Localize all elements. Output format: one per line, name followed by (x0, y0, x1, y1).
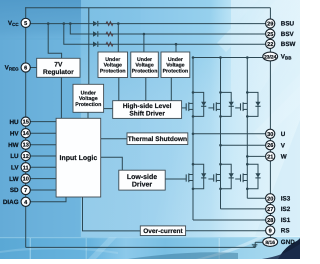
wire UVP2 to high-side driver (145, 78, 147, 101)
svg-text:VREG: VREG (5, 65, 19, 72)
node Q6 low-side W source junction (246, 188, 249, 191)
svg-text:27: 27 (267, 207, 273, 213)
svg-text:21: 21 (267, 154, 273, 160)
wire gate stub low V (208, 178, 213, 180)
svg-text:14: 14 (23, 131, 30, 137)
wire VREG pin to regulator (30, 67, 36, 69)
svg-text:Protection: Protection (163, 68, 189, 74)
svg-text:7V: 7V (54, 62, 63, 69)
pin 14 HV (10, 129, 30, 138)
svg-text:U: U (281, 131, 286, 138)
svg-text:HV: HV (10, 130, 20, 137)
transistor Q5 low-side V (214, 173, 221, 182)
svg-text:Protection: Protection (100, 68, 126, 74)
bootstrap resistor R2 (106, 32, 113, 36)
svg-text:W: W (281, 154, 287, 161)
wire input logic to thermal shutdown (101, 138, 127, 140)
pin 6 VREG (5, 63, 31, 72)
svg-text:30: 30 (267, 132, 273, 138)
wire bootstrap line 1 VCC to BSU (30, 23, 93, 25)
node Q5 low-side V source junction (219, 188, 222, 191)
node Q6 low-side W drain junction (246, 163, 249, 166)
node line1 tap line3 (63, 22, 66, 25)
svg-text:IS1: IS1 (281, 217, 291, 224)
transistor Q2 high-side V (214, 102, 221, 111)
ground (252, 245, 258, 248)
svg-text:BSU: BSU (281, 21, 295, 28)
pin 9 RS (266, 226, 290, 235)
wire UVP to input logic (87, 112, 89, 118)
body diode DUL branch wire (193, 164, 204, 189)
svg-text:Low-side: Low-side (127, 173, 157, 181)
wire half-bridge leg V (220, 58, 222, 209)
body diode DWL branch wire (247, 164, 258, 189)
svg-text:20: 20 (267, 196, 273, 202)
node VBB leg2 (219, 56, 222, 59)
wire input logic to low-side driver (101, 157, 123, 170)
svg-text:Driver: Driver (132, 181, 153, 189)
pin 4 DIAG (3, 197, 30, 206)
block 7V Regulator (37, 58, 80, 77)
wire low-side driver to gate U (165, 178, 186, 180)
node Q4 low-side U source junction (192, 188, 195, 191)
svg-text:High-side Level: High-side Level (123, 103, 172, 110)
svg-text:23/24: 23/24 (264, 54, 277, 60)
pin 30 U (266, 129, 286, 138)
svg-text:HW: HW (8, 142, 19, 149)
node Q3 high-side W drain junction (246, 91, 249, 94)
transistor Q4 low-side U (186, 173, 193, 182)
block Over-current (140, 226, 185, 236)
body diode DWL (255, 173, 260, 178)
node line1 tap UVP1 (117, 22, 120, 25)
svg-text:25: 25 (267, 32, 273, 38)
wire bootstrap line 3 to BSW (64, 24, 93, 45)
svg-text:IS2: IS2 (281, 206, 291, 213)
node Q4 low-side U drain junction (192, 163, 195, 166)
svg-text:Thermal Shutdown: Thermal Shutdown (128, 136, 187, 143)
wire SD pin to input logic (30, 189, 56, 191)
svg-text:GND: GND (281, 239, 295, 246)
svg-text:RS: RS (281, 228, 290, 235)
wire LU pin to input logic (30, 155, 56, 157)
wire regulator to input logic (60, 77, 62, 118)
wire UVP to high-side driver left (104, 108, 113, 110)
svg-text:Input Logic: Input Logic (60, 154, 98, 162)
wire LV pin to input logic (30, 166, 56, 168)
svg-text:12: 12 (23, 154, 29, 160)
bootstrap diode D3 (93, 42, 98, 47)
block Under Voltage Protection (VCC) (73, 84, 104, 112)
pin 15 HU (9, 117, 30, 126)
svg-text:22: 22 (267, 42, 273, 48)
bootstrap diode D2 (93, 31, 98, 36)
pin 5 VCC (8, 18, 30, 27)
wire phase W to pin (247, 155, 265, 157)
svg-text:Regulator: Regulator (43, 69, 74, 76)
wire VBB rail (193, 57, 263, 59)
wire gate stub low W (235, 178, 240, 180)
wire leg V to IS2 pin (221, 208, 266, 210)
block Under Voltage Protection BSV (131, 52, 159, 78)
wire LW pin to input logic (30, 178, 56, 180)
svg-text:Shift Driver: Shift Driver (129, 111, 165, 118)
wire half-bridge leg U (192, 58, 194, 221)
pin 27 IS2 (266, 204, 291, 213)
svg-text:VCC: VCC (8, 20, 19, 27)
wire phase U to pin (193, 133, 266, 135)
wire HU pin to input logic (30, 121, 56, 123)
body diode DUH (201, 102, 206, 107)
pin 26 V (266, 141, 286, 150)
node line3 tap UVP3 (175, 43, 178, 46)
svg-text:LW: LW (9, 176, 18, 183)
wire UVP3 to high-side driver (170, 78, 172, 101)
body diode DUH branch wire (193, 92, 204, 116)
svg-text:8/16: 8/16 (265, 240, 275, 246)
wire leg W to IS3 pin (247, 197, 265, 199)
node VBB leg1 (192, 56, 195, 59)
block Input Logic (56, 118, 101, 197)
block Low-side Driver (119, 170, 165, 190)
wire top rail to UVP (VCC monitor) (88, 8, 90, 85)
svg-text:26: 26 (267, 143, 273, 149)
node Q1 high-side U source junction (192, 115, 195, 118)
node Q2 high-side V drain junction (219, 91, 222, 94)
node phase U tap (192, 133, 195, 136)
node Q2 high-side V source junction (219, 115, 222, 118)
body diode DVH branch wire (221, 92, 232, 116)
wire bottom rail to ground (26, 246, 256, 248)
svg-text:LU: LU (10, 153, 19, 160)
block Thermal Shutdown (127, 133, 188, 145)
svg-text:Protection: Protection (75, 102, 101, 108)
pin 22 BSW (266, 39, 296, 48)
svg-text:DIAG: DIAG (3, 199, 19, 206)
svg-text:Protection: Protection (132, 68, 158, 74)
wire UVP1 to high-side driver (118, 78, 120, 101)
pin 28 IS1 (266, 215, 291, 224)
pin 7 SD (10, 185, 30, 194)
body diode DWH branch wire (247, 92, 258, 116)
wire line2 to UVP2 (143, 34, 145, 52)
wire gate stub high V (208, 107, 213, 109)
svg-text:6: 6 (24, 66, 27, 72)
wire bootstrap line 2 to BSV (70, 24, 93, 34)
pin 21 W (266, 152, 287, 161)
svg-text:HU: HU (9, 119, 19, 126)
wire input logic to over-current (83, 197, 141, 231)
body diode DVH (229, 102, 234, 107)
svg-text:Over-current: Over-current (143, 228, 183, 235)
svg-text:IS3: IS3 (281, 196, 291, 203)
body diode DUL (201, 173, 206, 178)
node phase W tap (246, 155, 249, 158)
svg-text:10: 10 (23, 177, 29, 183)
wire half-bridge leg W (246, 58, 248, 199)
block Under Voltage Protection BSU (98, 52, 128, 78)
transistor Q6 low-side W (241, 173, 248, 182)
wire right rail (pin chain vertical, top rail down to GND) (269, 8, 271, 242)
svg-text:LV: LV (11, 165, 19, 172)
pin 10 LW (9, 174, 30, 183)
transistor Q3 high-side W (241, 102, 248, 111)
block Under Voltage Protection BSW (161, 52, 190, 78)
svg-text:13: 13 (23, 143, 29, 149)
svg-text:7: 7 (24, 188, 27, 194)
svg-text:BSW: BSW (281, 41, 296, 48)
bootstrap resistor R3 (106, 42, 113, 46)
node Q5 low-side V drain junction (219, 163, 222, 166)
wire left rail (VREG pin chain vertical) (25, 7, 27, 247)
body diode DVL (229, 173, 234, 178)
svg-text:28: 28 (267, 218, 273, 224)
node line1 tap regulator (47, 22, 50, 25)
node Q1 high-side U drain junction (192, 91, 195, 94)
node phase V tap (219, 144, 222, 147)
svg-text:15: 15 (23, 120, 29, 126)
wire DIAG pin to input logic (30, 197, 66, 202)
wire ground riser (254, 242, 256, 247)
svg-text:VBB: VBB (281, 54, 292, 61)
pin 11 LV (11, 163, 30, 172)
svg-text:9: 9 (269, 229, 272, 235)
bootstrap diode D1 (93, 21, 98, 26)
pin 13 HW (8, 140, 30, 149)
pin 23/24 VBB (263, 52, 292, 61)
wire line1 to UVP1 (117, 24, 119, 52)
svg-text:11: 11 (23, 165, 29, 171)
svg-text:5: 5 (24, 21, 27, 27)
pin 29 BSU (266, 19, 295, 28)
wire gate stub high W (235, 107, 240, 109)
svg-text:SD: SD (10, 187, 19, 194)
svg-text:29: 29 (267, 22, 273, 28)
wire line3 to UVP3 (175, 44, 177, 52)
node line2 tap UVP2 (143, 33, 146, 36)
pin 20 IS3 (266, 194, 291, 203)
wire high-side driver to gate U (182, 107, 187, 109)
body diode DVL branch wire (221, 164, 232, 189)
wire over-current to RS pin (186, 230, 266, 232)
wire HW pin to input logic (30, 144, 56, 146)
pin 12 LU (10, 151, 30, 160)
transistor Q1 high-side U (186, 102, 193, 111)
wire top rail (25, 7, 270, 9)
node line1 tap line2 (69, 22, 72, 25)
wire HV pin to input logic (30, 132, 56, 134)
pin 8/16 GND (263, 238, 295, 247)
svg-text:BSV: BSV (281, 31, 295, 38)
wire leg U to IS1 pin (193, 219, 266, 221)
node Q3 high-side W source junction (246, 115, 249, 118)
wire VCC to 7V regulator input (48, 24, 61, 59)
body diode DWH (255, 102, 260, 107)
wire phase V to pin (221, 144, 266, 146)
bootstrap resistor R1 (106, 22, 113, 26)
block High-side Level Shift Driver (113, 101, 182, 119)
node VBB leg3 (246, 56, 249, 59)
pin 25 BSV (266, 29, 295, 38)
